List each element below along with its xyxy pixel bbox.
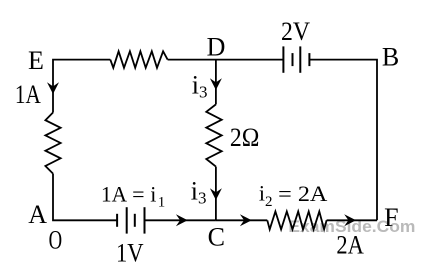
svg-text:C: C — [208, 222, 225, 251]
svg-text:1A: 1A — [15, 80, 41, 109]
svg-text:2Ω: 2Ω — [230, 123, 260, 152]
battery 2V: short plate — [292, 53, 294, 66]
battery 1V: tall plate right — [144, 207, 146, 233]
svg-text:2V: 2V — [281, 17, 310, 46]
wire middle resistor to C junction — [215, 167, 217, 221]
svg-text:=: = — [132, 182, 144, 207]
wire E corner: top-left (E to resistor, E down to left resistor) — [53, 60, 110, 113]
wire 1V battery to C — [145, 219, 216, 221]
wire resistor to D to 2V battery — [168, 59, 284, 61]
svg-text:1: 1 — [158, 195, 166, 211]
wire battery to B corner down to F — [309, 60, 377, 221]
battery 1V: short plate middle — [134, 214, 136, 227]
svg-text:O: O — [49, 226, 63, 255]
resistor (left, between E and A) — [45, 113, 60, 174]
battery 2V: short plate rightmost — [308, 53, 310, 66]
wire bottom resistor to F corner — [327, 219, 377, 221]
arrow right (C to resistor) — [240, 214, 252, 226]
svg-text:2A: 2A — [336, 230, 364, 259]
svg-text:B: B — [382, 43, 399, 72]
svg-text:D: D — [207, 33, 226, 62]
svg-text:1V: 1V — [116, 238, 144, 267]
arrow right (battery to C) — [176, 214, 188, 226]
battery 1V: short plate leftmost — [116, 214, 118, 227]
resistor (top, between E and D) — [110, 51, 167, 68]
arrow right (resistor to F) — [344, 214, 356, 226]
wire C to bottom resistor — [216, 219, 267, 221]
battery 2V: tall plate left — [282, 46, 284, 72]
svg-text:F: F — [384, 203, 398, 232]
arrow down on left branch (1A) — [47, 82, 59, 94]
resistor 2 ohm (middle vertical) — [206, 104, 221, 166]
battery 2V: tall plate right — [299, 46, 301, 72]
wire left resistor down to A corner and to 1V battery — [53, 174, 117, 221]
wire middle branch D to resistor — [215, 60, 217, 105]
arrow down middle bottom (i3) — [210, 188, 222, 200]
svg-text:A: A — [28, 200, 47, 229]
svg-text:2: 2 — [265, 194, 273, 210]
svg-text:= 2A: = 2A — [278, 181, 327, 206]
svg-text:E: E — [28, 46, 44, 75]
svg-text:1A: 1A — [101, 182, 127, 207]
svg-text:i: i — [150, 182, 156, 207]
resistor (bottom, between C and F) — [267, 212, 326, 230]
arrow down middle top (i3) — [210, 78, 222, 90]
battery 1V: tall plate — [126, 207, 128, 233]
